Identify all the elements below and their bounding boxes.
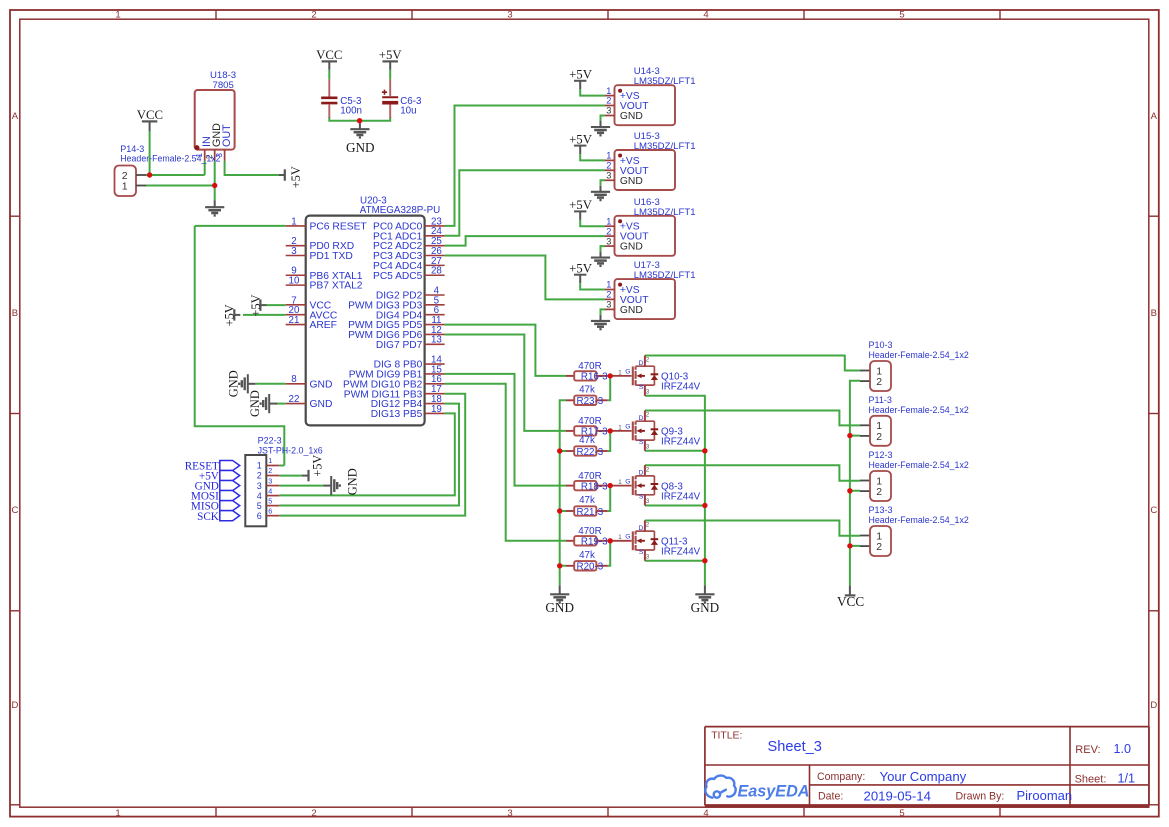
svg-text:C: C bbox=[1150, 505, 1157, 516]
svg-text:IRFZ44V: IRFZ44V bbox=[661, 491, 701, 502]
svg-text:IRFZ44V: IRFZ44V bbox=[661, 382, 701, 393]
svg-text:470R: 470R bbox=[578, 416, 601, 427]
svg-text:B: B bbox=[12, 308, 18, 319]
svg-text:P22-3: P22-3 bbox=[258, 436, 282, 446]
svg-text:6: 6 bbox=[268, 506, 272, 515]
svg-text:10u: 10u bbox=[400, 106, 416, 117]
svg-text:R19-3: R19-3 bbox=[581, 537, 608, 548]
svg-text:LM35DZ/LFT1: LM35DZ/LFT1 bbox=[634, 207, 696, 218]
svg-text:Company:: Company: bbox=[817, 771, 865, 783]
svg-text:+5V: +5V bbox=[249, 294, 263, 316]
svg-text:AREF: AREF bbox=[310, 320, 337, 331]
svg-text:Sheet:: Sheet: bbox=[1075, 774, 1107, 786]
svg-text:6: 6 bbox=[257, 511, 262, 521]
svg-text:2: 2 bbox=[311, 10, 316, 21]
svg-text:Header-Female-2.54_1x2: Header-Female-2.54_1x2 bbox=[869, 460, 969, 470]
svg-text:+5V: +5V bbox=[223, 304, 237, 326]
svg-text:GND: GND bbox=[310, 399, 333, 410]
svg-text:3: 3 bbox=[507, 808, 512, 819]
svg-text:SCK: SCK bbox=[197, 511, 219, 523]
svg-text:4: 4 bbox=[703, 10, 708, 21]
svg-text:IRFZ44V: IRFZ44V bbox=[661, 547, 701, 558]
svg-text:ATMEGA328P-PU: ATMEGA328P-PU bbox=[360, 205, 440, 216]
svg-text:1: 1 bbox=[115, 10, 120, 21]
svg-text:1: 1 bbox=[122, 181, 128, 193]
svg-text:5: 5 bbox=[899, 10, 904, 21]
svg-text:22: 22 bbox=[289, 394, 300, 405]
svg-text:IRFZ44V: IRFZ44V bbox=[661, 437, 701, 448]
svg-text:+5V: +5V bbox=[289, 166, 303, 188]
svg-text:LM35DZ/LFT1: LM35DZ/LFT1 bbox=[634, 141, 696, 152]
svg-text:4: 4 bbox=[703, 808, 708, 819]
svg-text:REV:: REV: bbox=[1075, 744, 1100, 756]
svg-text:LM35DZ/LFT1: LM35DZ/LFT1 bbox=[634, 270, 696, 281]
svg-text:1: 1 bbox=[291, 216, 296, 227]
svg-text:1.0: 1.0 bbox=[1114, 742, 1132, 756]
svg-text:1: 1 bbox=[115, 808, 120, 819]
svg-text:VCC: VCC bbox=[316, 48, 342, 62]
svg-text:3: 3 bbox=[257, 481, 262, 491]
svg-text:JST-PH-2.0_1x6: JST-PH-2.0_1x6 bbox=[258, 445, 323, 455]
svg-text:R21-3: R21-3 bbox=[577, 507, 604, 518]
svg-text:Date:: Date: bbox=[818, 791, 843, 803]
svg-text:Header-Female-2.54_1x2: Header-Female-2.54_1x2 bbox=[869, 515, 969, 525]
svg-text:D: D bbox=[1150, 700, 1157, 711]
svg-text:10: 10 bbox=[289, 276, 300, 287]
svg-text:28: 28 bbox=[431, 266, 442, 277]
svg-text:3: 3 bbox=[507, 10, 512, 21]
svg-text:P10-3: P10-3 bbox=[869, 340, 893, 350]
svg-text:Your Company: Your Company bbox=[880, 769, 967, 784]
svg-text:Header-Female-2.54_1x2: Header-Female-2.54_1x2 bbox=[869, 405, 969, 415]
svg-text:2: 2 bbox=[257, 471, 262, 481]
svg-text:47k: 47k bbox=[579, 495, 595, 506]
svg-text:47k: 47k bbox=[579, 550, 595, 561]
svg-text:GND: GND bbox=[227, 370, 241, 397]
svg-text:DIG13 PB5: DIG13 PB5 bbox=[371, 409, 423, 420]
svg-text:1: 1 bbox=[257, 461, 262, 471]
svg-text:PD1 TXD: PD1 TXD bbox=[310, 251, 353, 262]
svg-text:A: A bbox=[1151, 111, 1158, 122]
svg-text:5: 5 bbox=[899, 808, 904, 819]
svg-text:R22-3: R22-3 bbox=[577, 447, 604, 458]
svg-text:Header-Female-2.54_1x2: Header-Female-2.54_1x2 bbox=[120, 153, 220, 163]
svg-text:4: 4 bbox=[257, 491, 262, 501]
svg-text:LM35DZ/LFT1: LM35DZ/LFT1 bbox=[634, 76, 696, 87]
svg-text:19: 19 bbox=[431, 404, 442, 415]
svg-text:TITLE:: TITLE: bbox=[711, 731, 742, 742]
svg-text:2: 2 bbox=[268, 466, 272, 475]
svg-text:OUT: OUT bbox=[221, 124, 233, 147]
svg-text:+5V: +5V bbox=[379, 48, 403, 62]
svg-text:P12-3: P12-3 bbox=[869, 450, 893, 460]
svg-text:7805: 7805 bbox=[213, 80, 234, 91]
svg-text:3: 3 bbox=[268, 476, 272, 485]
svg-text:4: 4 bbox=[268, 486, 272, 495]
svg-text:A: A bbox=[12, 111, 19, 122]
svg-text:2019-05-14: 2019-05-14 bbox=[864, 788, 931, 803]
svg-text:470R: 470R bbox=[578, 471, 601, 482]
svg-text:GND: GND bbox=[346, 468, 360, 495]
svg-text:P13-3: P13-3 bbox=[869, 505, 893, 515]
svg-text:R23-3: R23-3 bbox=[577, 396, 604, 407]
svg-text:5: 5 bbox=[257, 501, 262, 511]
svg-text:100n: 100n bbox=[340, 106, 362, 117]
svg-text:2: 2 bbox=[311, 808, 316, 819]
svg-text:+5V: +5V bbox=[311, 455, 325, 477]
svg-text:EasyEDA: EasyEDA bbox=[738, 782, 810, 800]
svg-text:VCC: VCC bbox=[837, 594, 864, 609]
svg-text:PC5 ADC5: PC5 ADC5 bbox=[373, 271, 423, 282]
svg-text:47k: 47k bbox=[579, 385, 595, 396]
svg-text:GND: GND bbox=[346, 140, 375, 155]
svg-text:R20-3: R20-3 bbox=[577, 562, 604, 573]
svg-text:Drawn By:: Drawn By: bbox=[956, 791, 1005, 803]
svg-text:PB7 XTAL2: PB7 XTAL2 bbox=[310, 281, 363, 292]
svg-text:1/1: 1/1 bbox=[1118, 772, 1136, 786]
svg-text:PC6 RESET: PC6 RESET bbox=[310, 222, 368, 233]
svg-text:GND: GND bbox=[248, 390, 262, 417]
svg-text:1: 1 bbox=[268, 456, 272, 465]
svg-text:B: B bbox=[1151, 308, 1157, 319]
svg-text:13: 13 bbox=[431, 335, 442, 346]
svg-text:470R: 470R bbox=[578, 361, 601, 372]
svg-text:GND: GND bbox=[691, 600, 720, 615]
svg-text:D: D bbox=[11, 700, 18, 711]
svg-text:R18-3: R18-3 bbox=[581, 481, 608, 492]
svg-text:VCC: VCC bbox=[137, 108, 163, 122]
svg-text:R16-3: R16-3 bbox=[581, 372, 608, 383]
svg-text:DIG7 PD7: DIG7 PD7 bbox=[376, 340, 423, 351]
svg-text:Sheet_3: Sheet_3 bbox=[768, 739, 822, 755]
svg-text:21: 21 bbox=[289, 315, 300, 326]
svg-text:47k: 47k bbox=[579, 435, 595, 446]
svg-text:Pirooman: Pirooman bbox=[1017, 788, 1073, 803]
svg-text:8: 8 bbox=[291, 374, 297, 385]
svg-text:470R: 470R bbox=[578, 526, 601, 537]
svg-text:GND: GND bbox=[310, 379, 333, 390]
svg-text:3: 3 bbox=[291, 246, 297, 257]
svg-text:P11-3: P11-3 bbox=[869, 395, 892, 405]
svg-text:5: 5 bbox=[268, 496, 272, 505]
svg-text:Header-Female-2.54_1x2: Header-Female-2.54_1x2 bbox=[869, 350, 969, 360]
svg-text:C: C bbox=[11, 505, 18, 516]
svg-text:GND: GND bbox=[545, 600, 574, 615]
